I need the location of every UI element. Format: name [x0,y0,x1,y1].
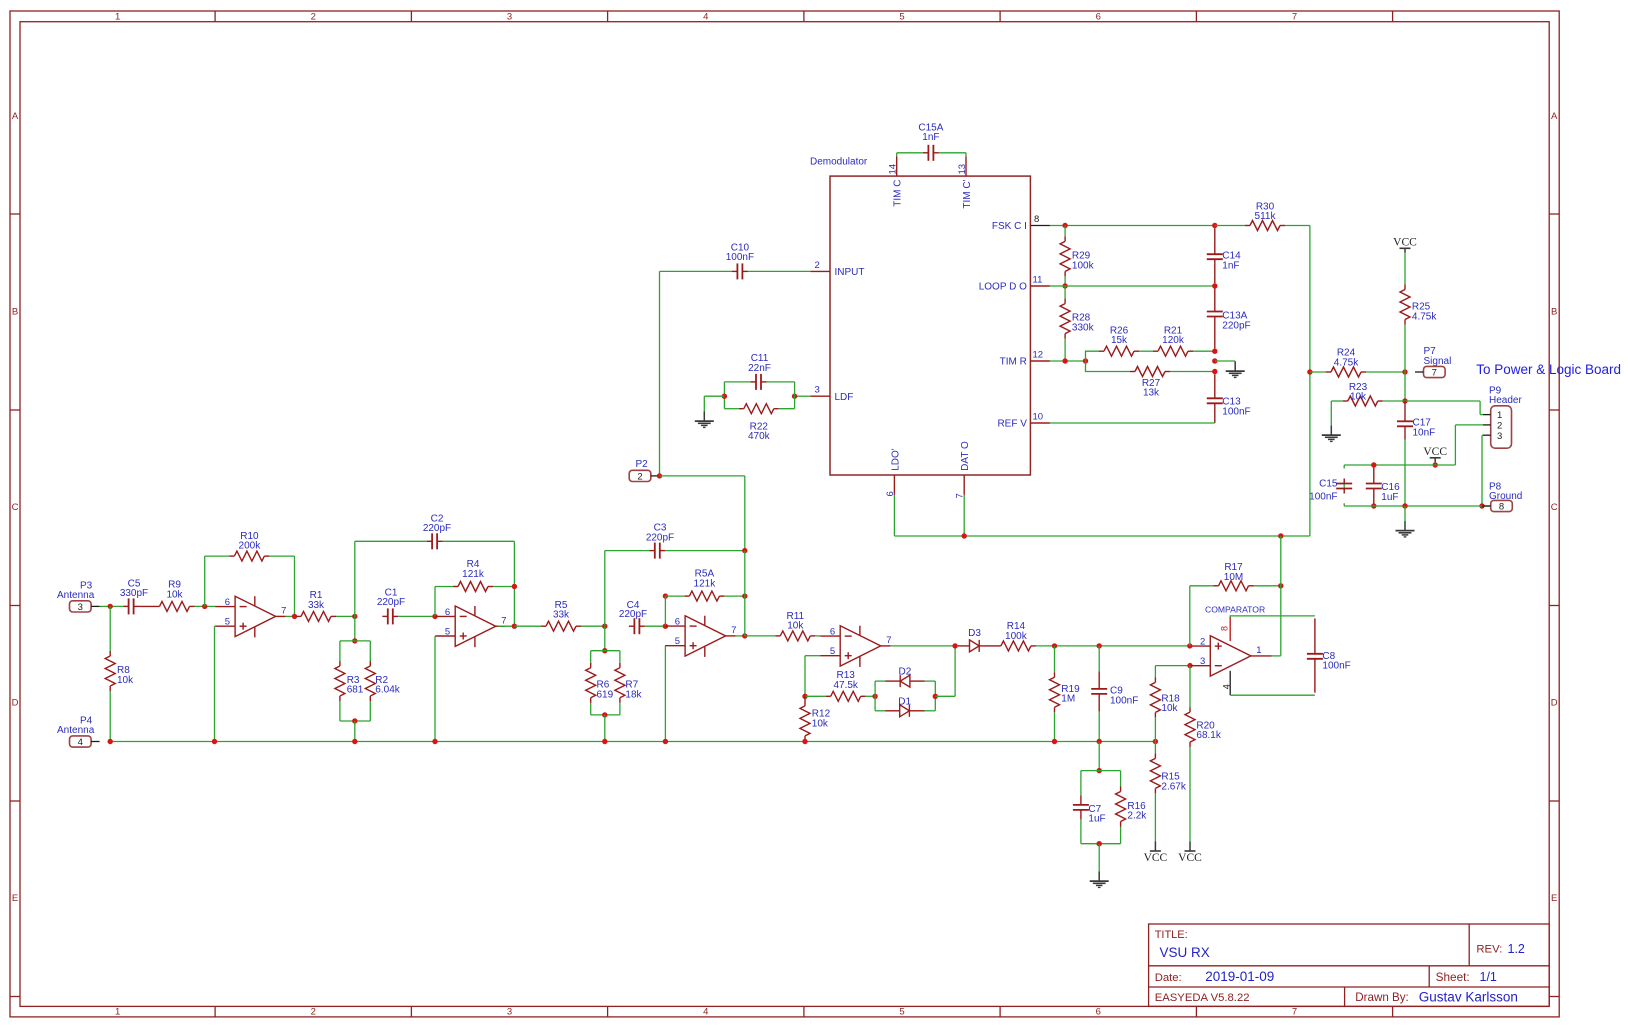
svg-text:100nF: 100nF [1110,695,1138,706]
svg-text:13: 13 [957,164,968,175]
wire ground row [1344,505,1491,507]
wire R13 right [866,695,875,697]
svg-text:15k: 15k [1111,335,1128,346]
wire C15A to pin13 [939,152,966,154]
junction C16 bottom [1371,503,1376,508]
svg-text:1M: 1M [1061,694,1075,705]
svg-text:Date:: Date: [1155,972,1182,984]
svg-text:Gustav Karlsson: Gustav Karlsson [1419,989,1518,1004]
svg-text:18k: 18k [625,689,642,700]
junction rail C9 [1097,739,1102,744]
svg-text:10k: 10k [787,621,804,632]
wire pin11 [1050,285,1065,287]
VCC top [1393,236,1417,253]
wire main rail [110,741,1155,743]
svg-text:Antenna: Antenna [57,725,95,736]
resistor R28 [1060,299,1070,339]
wire R2 legs [369,641,371,721]
resistor R21 [1153,346,1193,356]
wire R21 right [1193,350,1215,352]
svg-text:LDF: LDF [835,392,854,403]
wire D1 right [925,710,936,712]
svg-text:2: 2 [1200,637,1205,648]
junction C7R16 top [1097,768,1102,773]
svg-text:VCC: VCC [1144,852,1168,864]
svg-text:220pF: 220pF [423,523,451,534]
ground near R23 [1322,426,1341,442]
junction rail op3 pin5 [663,739,668,744]
wire comparator output [1272,655,1281,657]
svg-text:10k: 10k [1161,703,1178,714]
wire rail to C7R16 [1098,742,1100,771]
capacitor C4 [629,618,645,634]
wire R17 left riser [1189,586,1191,646]
svg-text:200k: 200k [239,541,262,552]
svg-text:511k: 511k [1255,211,1277,222]
wire op4 pin5 drop [804,656,806,697]
capacitor C16 [1366,465,1382,506]
svg-text:Demodulator: Demodulator [810,157,868,168]
resistor R1 [296,611,336,621]
wire D2 left [875,680,885,682]
wire op1 pin5 [214,625,217,627]
wire R27 riser [1086,361,1114,372]
capacitor C13 [1207,374,1223,423]
svg-text:B: B [12,306,18,317]
wire to ground tap [1215,360,1235,362]
svg-text:7: 7 [886,635,891,646]
wire to R15 [1154,742,1156,754]
wire R27 right [1170,371,1215,373]
junction R3R2 bottom [352,718,357,723]
wire VCC rail [1344,464,1455,466]
svg-text:C: C [12,502,19,513]
IC pin 6 LDO-prime stub [893,475,895,495]
ground near R22 [695,412,714,428]
IC pin 11 LOOP D O stub [1030,285,1050,287]
resistor R9 [139,601,194,611]
svg-text:INPUT: INPUT [835,267,865,278]
wire to R30 [1215,225,1245,227]
svg-text:3: 3 [507,12,512,23]
svg-text:D: D [12,697,19,708]
svg-text:6: 6 [1096,12,1101,23]
wire C3 right [665,550,745,552]
wire D1D2 right legs [934,681,936,711]
svg-text:1nF: 1nF [1222,261,1239,272]
wire op3 pin5 drop [664,646,666,742]
wire VCC stem [1434,462,1436,465]
wire R4 left [435,586,453,588]
svg-text:5: 5 [830,646,835,657]
svg-text:220pF: 220pF [377,597,405,608]
svg-text:4: 4 [1221,684,1231,689]
svg-text:220pF: 220pF [646,532,674,543]
wire C8 loop top [1230,616,1315,617]
wire to R20 [1189,666,1191,708]
svg-text:121k: 121k [694,578,717,589]
svg-text:1nF: 1nF [922,132,939,143]
svg-text:7: 7 [1292,1007,1297,1018]
resistor R25 [1400,285,1410,325]
svg-text:7: 7 [501,615,506,626]
wire R16 legs [1120,771,1122,844]
wire R5A riser [664,596,666,626]
svg-text:3: 3 [1200,656,1205,667]
wire down to C3 row [744,476,746,551]
svg-text:3: 3 [507,1007,512,1018]
svg-text:7: 7 [281,606,286,617]
wire C15 left leg [1343,465,1345,506]
op-amp U2.4 [820,626,891,667]
capacitor C1 [382,608,398,624]
svg-text:2.67k: 2.67k [1161,781,1186,792]
capacitor C10 [732,263,748,279]
svg-text:10: 10 [1033,412,1044,423]
wire R17 left [1190,585,1214,587]
wire D1D2 left legs [874,681,876,711]
svg-text:10k: 10k [117,675,134,686]
svg-text:100nF: 100nF [1309,492,1337,503]
resistor R7 [615,663,625,703]
resistor R10 [229,551,269,561]
svg-text:P2: P2 [636,459,649,470]
diode D1 [885,705,924,717]
svg-text:DAT O: DAT O [960,441,971,471]
wire op4 pin5 [805,655,820,657]
capacitor C17 [1397,401,1413,440]
wire R22 left [724,408,738,410]
wire P7 node down [1404,372,1406,401]
wire pin14 up [896,153,898,157]
resistor R22 [739,404,779,414]
svg-text:6: 6 [1096,1007,1101,1018]
wire R5 right [581,625,605,627]
wire R22 right [779,408,795,410]
wire pin7 down [963,495,965,536]
wire C7R16 top bar [1081,770,1121,772]
junction comparator pin2 [1187,643,1192,648]
capacitor C11 [751,374,767,390]
wire R10 right [269,555,294,557]
wire R23 right [1383,400,1405,402]
junction D1D2 left [872,694,877,699]
wire C17 to ground row [1404,440,1406,506]
connector pin P8 (Ground) [1482,481,1522,512]
junction rail op2 pin5 [432,739,437,744]
capacitor C15A [923,145,939,161]
wire R6R7 to rail [604,715,606,742]
wire to R18 [1154,666,1156,678]
wire P9 pin3 join [1482,434,1483,436]
op-amp U2.2 [435,606,506,647]
wire op2 pin5 drop [434,636,436,742]
wire DAT rail [894,535,1310,537]
junction R5-C4 [602,624,607,629]
wire D1 left [875,710,885,712]
wire R19 bottom [1054,712,1056,741]
junction C17 ground [1402,503,1407,508]
svg-text:TIM C': TIM C' [962,179,973,208]
wire R3R2 to rail [354,721,356,742]
comparator power pin 4 [1229,671,1231,695]
wire R7 legs [619,651,621,715]
wire C2 left [355,540,427,542]
junction R6R7 bottom [602,712,607,717]
svg-text:5: 5 [225,617,230,628]
junction rail R12 [802,739,807,744]
resistor R15 [1150,753,1160,793]
resistor R18 [1150,677,1160,717]
junction C16 top [1371,462,1376,467]
resistor R4 [453,582,493,592]
resistor R27 [1130,367,1170,377]
svg-text:6: 6 [445,607,450,618]
wire R26-R21 [1139,350,1153,352]
IC pin 2 INPUT stub [810,270,830,272]
junction ground tap [1212,358,1217,363]
junction rail op1 pin5 [212,739,217,744]
wire R5A left [665,595,684,597]
svg-text:VSU RX: VSU RX [1160,945,1210,960]
junction R21 right [1212,349,1217,354]
wire pin6 down [893,495,895,536]
wire R29 bottom [1064,276,1066,286]
svg-text:8: 8 [1499,502,1504,513]
wire R13 left [805,695,826,697]
border row letters [12,111,1558,904]
IC pin 3 LDF stub [810,395,830,397]
capacitor C14 [1207,228,1223,283]
svg-text:TIM C: TIM C [893,180,904,207]
wire to R24 [1310,371,1326,373]
wire R10 right riser [294,556,296,616]
IC pin 7 DAT O stub [963,475,965,495]
junction op1 out [292,614,297,619]
junction C11-R22 left [722,394,727,399]
svg-text:1/1: 1/1 [1480,970,1497,984]
wire C3 left riser [604,551,606,627]
svg-text:FSK C I: FSK C I [992,221,1027,232]
IC pin 12 TIM R stub [1030,360,1050,362]
svg-text:4: 4 [703,12,708,23]
ground bottom [1090,872,1109,888]
resistor R17 [1214,581,1254,591]
svg-text:2.2k: 2.2k [1127,811,1147,822]
svg-text:619: 619 [597,689,614,700]
wire op3 node riser [744,551,746,636]
svg-text:2: 2 [815,260,820,271]
wire op4 out [891,645,955,647]
wire ground stem [1404,506,1406,521]
VCC under R15 [1144,841,1168,864]
resistor R26 [1099,346,1139,356]
wire to P9 pin1 [1405,400,1480,402]
wire P9 pin1 stub join [1480,414,1483,416]
svg-text:Ground: Ground [1489,491,1522,502]
svg-text:LDO': LDO' [890,448,901,471]
wire R18 bottom [1154,717,1156,741]
svg-text:14: 14 [888,164,899,175]
svg-text:3: 3 [78,602,83,613]
wire R6R7 bottom bar [591,714,620,716]
wire R20 bottom [1189,747,1191,841]
wire P3 to C5 [100,605,124,607]
wire R23 to ground [1330,401,1332,426]
svg-text:E: E [1551,893,1557,904]
wire R4 riser [434,587,436,617]
svg-text:A: A [1551,111,1558,122]
comparator power pin 8 [1229,617,1231,641]
ground near R21 [1226,362,1245,378]
svg-text:Antenna: Antenna [57,590,95,601]
svg-text:8: 8 [1034,214,1039,225]
svg-text:8: 8 [1220,626,1230,631]
svg-text:REF V: REF V [997,419,1027,430]
wire R17 right [1254,585,1281,587]
wire R3 legs [339,641,341,721]
junction R28 bottom [1062,358,1067,363]
wire R23 left [1331,400,1343,402]
junction R5A right [742,593,747,598]
wire op3 out [736,635,745,637]
svg-text:Signal: Signal [1424,356,1452,367]
svg-text:10k: 10k [1350,391,1367,402]
junction C14-C13A [1212,283,1217,288]
resistor R11 [775,631,815,641]
svg-text:6.04k: 6.04k [375,685,400,696]
svg-text:1uF: 1uF [1381,492,1398,503]
svg-text:2: 2 [311,1007,316,1018]
wire C4 right [645,625,666,627]
svg-text:4.75k: 4.75k [1412,312,1437,323]
junction C1 left [352,614,357,619]
svg-text:68.1k: 68.1k [1196,730,1221,741]
svg-text:220pF: 220pF [619,609,647,620]
resistor R3 [335,661,345,701]
IC pin 10 REF V stub [1030,422,1050,424]
svg-text:10nF: 10nF [1413,428,1436,439]
wire R3R2 bottom bar [340,720,370,722]
wire R8 to rail [109,691,111,742]
resistor R5A [684,591,724,601]
svg-text:100nF: 100nF [1322,661,1350,672]
wire FSK row [1050,225,1215,227]
svg-text:6: 6 [830,627,835,638]
svg-text:TITLE:: TITLE: [1155,929,1188,941]
wire to R29 [1064,226,1066,237]
svg-text:2: 2 [637,472,642,483]
svg-text:1.2: 1.2 [1508,942,1525,956]
junction pin7 rail [962,533,967,538]
wire to ground [704,395,724,397]
wire to R6R7 top [604,626,606,651]
junction R13 left [802,694,807,699]
svg-text:7: 7 [1432,368,1437,379]
svg-text:100k: 100k [1005,631,1028,642]
wire D1D2 to out [935,695,955,697]
svg-text:To Power & Logic Board: To Power & Logic Board [1476,362,1621,377]
junction R24 left [1307,369,1312,374]
svg-text:22nF: 22nF [748,363,771,374]
wire R11 right [815,635,820,637]
svg-text:REV:: REV: [1476,943,1502,955]
wire ground drop [703,396,705,411]
junction VCC rail [1433,462,1438,467]
wire LOOP row [1065,285,1215,287]
connector pin P3 (Antenna) [70,601,100,613]
wire feedback riser [954,646,956,696]
resistor R19 [1050,672,1060,712]
wire C11/R22 left riser [723,382,725,409]
wire op1 out [286,615,296,617]
wire D2 right [925,680,936,682]
svg-text:5: 5 [445,627,450,638]
wire P9 pin1 drop [1479,401,1481,415]
diode D3 [958,640,986,652]
capacitor C2 [427,533,443,549]
junction C11-R22 right [792,394,797,399]
wire to C15A [897,152,923,154]
svg-text:100nF: 100nF [726,252,754,263]
wire R27 left [1114,371,1131,373]
svg-text:1: 1 [115,1007,120,1018]
svg-text:D: D [1551,697,1558,708]
svg-text:A: A [12,111,19,122]
svg-text:D2: D2 [899,666,912,677]
svg-text:1: 1 [1256,645,1261,656]
connector pin P4 (Antenna) [70,736,100,748]
resistor R6 [586,663,596,703]
svg-text:100nF: 100nF [1222,406,1250,417]
junction R26-R27 split [1083,358,1088,363]
wire op2 out [498,625,514,627]
wire FSK drop [1309,226,1311,537]
wire to R5 [514,625,541,627]
wire C11 left [724,381,750,383]
svg-text:220pF: 220pF [1222,321,1250,332]
svg-text:4: 4 [78,737,83,748]
junction R17 right [1278,583,1283,588]
svg-text:13k: 13k [1143,388,1160,399]
junction op3 out [742,633,747,638]
wire C2 right [443,540,515,542]
svg-text:VCC: VCC [1393,236,1417,248]
svg-text:6: 6 [675,617,680,628]
VCC mid [1423,446,1447,463]
wire comparator out riser [1280,536,1282,656]
IC pin 13 TIM C-prime stub [965,156,967,176]
wire pin3 drop [1481,435,1483,506]
junction R4 right [512,584,517,589]
wire P3 node to R8 [109,606,111,651]
wire P9 pin2 [1455,424,1483,426]
ground right column [1396,521,1415,537]
svg-text:7: 7 [731,625,736,636]
junction C3 right [742,548,747,553]
capacitor C8 [1307,618,1323,692]
wire C10 left [660,270,732,272]
IC pin 14 TIM C stub [896,156,898,176]
svg-text:3: 3 [815,385,820,396]
wire pin2 drop [1454,425,1456,465]
svg-text:4: 4 [703,1007,708,1018]
resistor R12 [800,696,810,741]
svg-text:11: 11 [1033,275,1043,286]
wire C11 right [767,381,795,383]
svg-text:6: 6 [225,597,230,608]
junction R19 top [1052,643,1057,648]
